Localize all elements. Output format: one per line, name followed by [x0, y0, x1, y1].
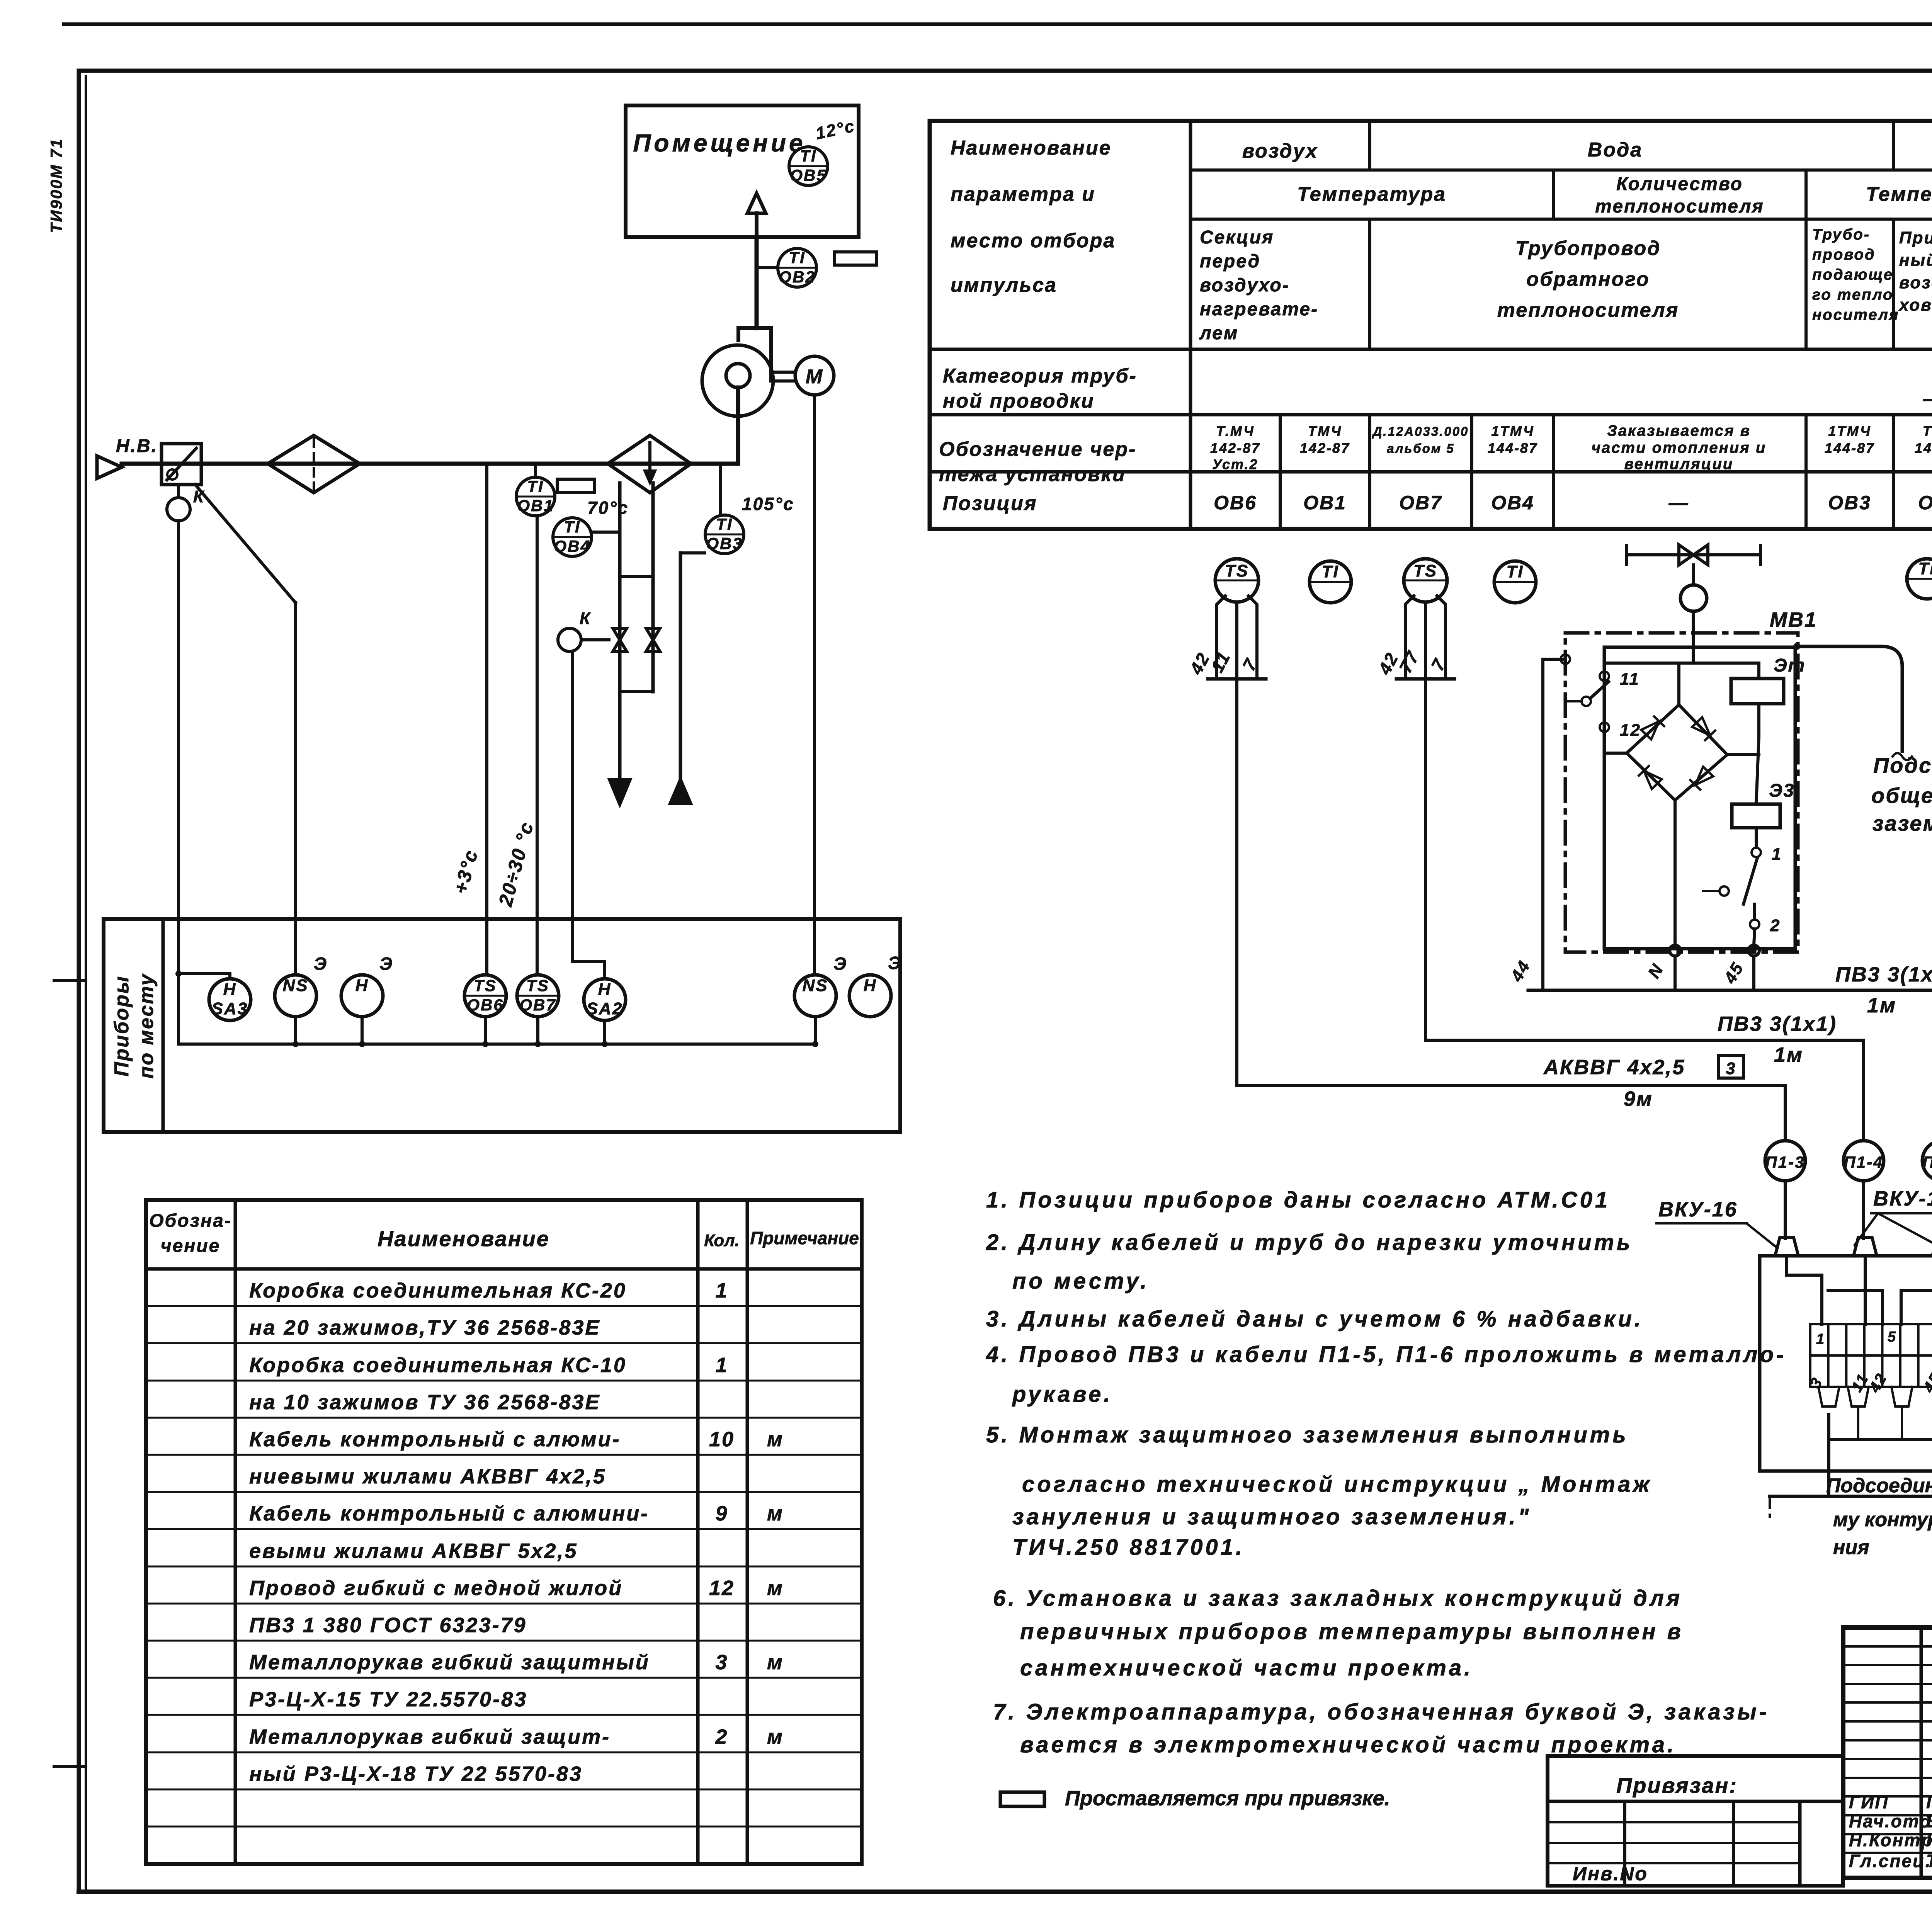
duct fan-heater: [736, 388, 740, 464]
svg-text:ный Р3-Ц-Х-18 ТУ 22 5570-83: ный Р3-Ц-Х-18 ТУ 22 5570-83: [249, 1762, 583, 1786]
sensor TS: [1215, 559, 1259, 602]
svg-text:теплоносителя: теплоносителя: [1595, 196, 1764, 217]
svg-text:SА2: SА2: [587, 999, 623, 1018]
lamp NS right: [794, 975, 836, 1017]
svg-text:ТI: ТI: [1506, 562, 1524, 581]
KC-20 internal bottom bus: [1827, 1414, 1830, 1439]
svg-text:ТИ900М 71: ТИ900М 71: [47, 138, 65, 233]
svg-text:Т.МЧ: Т.МЧ: [1216, 423, 1254, 439]
svg-text:NS: NS: [282, 976, 308, 995]
svg-text:Н.В.: Н.В.: [116, 436, 158, 456]
svg-text:Кабель контрольный с алюмини-: Кабель контрольный с алюмини-: [249, 1502, 649, 1525]
svg-text:го тепло: го тепло: [1812, 286, 1893, 303]
svg-text:1ТМЧ: 1ТМЧ: [1828, 423, 1871, 439]
svg-text:сантехнической части проекта: сантехнической части проекта.: [1020, 1655, 1473, 1680]
svg-text:Трубопровод: Трубопровод: [1515, 237, 1661, 260]
svg-text:Провод гибкий с медной жилой: Провод гибкий с медной жилой: [249, 1577, 623, 1600]
svg-text:77: 77: [1395, 647, 1423, 676]
parts table: [146, 1200, 862, 1864]
diode VD1: [1641, 716, 1664, 740]
svg-text:44: 44: [1507, 957, 1534, 985]
svg-text:ный: ный: [1899, 251, 1932, 270]
svg-text:вентиляции: вентиляции: [1624, 456, 1734, 473]
svg-text:142-87: 142-87: [1210, 440, 1260, 456]
svg-text:Э: Э: [888, 953, 902, 973]
svg-text:Гл.спец.: Гл.спец.: [1849, 1851, 1932, 1871]
svg-text:подающе: подающе: [1812, 266, 1893, 283]
valve K2 circle: [558, 628, 581, 651]
svg-text:+3°с: +3°с: [449, 847, 482, 896]
damper K1: [162, 444, 201, 485]
svg-text:Н: Н: [598, 980, 612, 999]
fan P1: [702, 345, 773, 416]
cable circle P1-3: [1765, 1141, 1805, 1181]
svg-text:ТI: ТI: [716, 515, 733, 533]
cable circle P1-4: [1844, 1141, 1884, 1181]
svg-text:ОВ2: ОВ2: [779, 268, 815, 286]
outside air funnel НВ: [97, 456, 122, 478]
lamp NS: [275, 975, 316, 1017]
thermometer TI OB3: [705, 515, 744, 554]
svg-text:Приборы: Приборы: [111, 975, 133, 1077]
svg-text:Эт: Эт: [1774, 655, 1806, 676]
pushbutton H: [341, 975, 383, 1017]
position tag rect: [834, 252, 877, 265]
svg-text:место отбора: место отбора: [951, 230, 1116, 252]
svg-text:ной проводки: ной проводки: [943, 390, 1095, 412]
sensor TS: [1404, 559, 1447, 602]
svg-text:ПВ3 3(1х1): ПВ3 3(1х1): [1718, 1012, 1837, 1036]
motor M: [795, 356, 834, 395]
valve circle K: [177, 485, 180, 498]
fold mark: [54, 979, 86, 982]
svg-text:Наименование: Наименование: [378, 1226, 550, 1251]
svg-text:12: 12: [709, 1577, 735, 1600]
svg-text:ОВ7: ОВ7: [519, 996, 556, 1014]
pushbutton H right: [849, 975, 891, 1017]
diode VD2: [1692, 717, 1715, 740]
thermostat TS OB6: [464, 975, 506, 1017]
thermometer TI OB4: [553, 518, 592, 556]
svg-text:м: м: [767, 1725, 784, 1748]
svg-text:Нач.отд.: Нач.отд.: [1849, 1811, 1932, 1831]
panel bus wire: [179, 1043, 815, 1046]
border frame: [64, 22, 1932, 26]
svg-text:Э: Э: [379, 954, 393, 974]
svg-text:2: 2: [1770, 916, 1781, 935]
svg-text:воздух: воздух: [1242, 140, 1318, 162]
svg-text:рукаве.: рукаве.: [1012, 1382, 1113, 1407]
svg-text:NS: NS: [802, 976, 828, 995]
svg-text:1. Позиции приборов даны со: 1. Позиции приборов даны согласно АТМ.С0…: [986, 1187, 1610, 1213]
svg-text:тежа установки: тежа установки: [939, 463, 1126, 486]
pushbutton H SA2: [584, 979, 626, 1020]
svg-text:альбом 5: альбом 5: [1387, 441, 1454, 456]
svg-text:ТИЧ.250 8817001.: ТИЧ.250 8817001.: [1012, 1535, 1245, 1560]
svg-text:Количество: Количество: [1616, 174, 1743, 194]
svg-text:перед: перед: [1200, 251, 1260, 272]
svg-text:⎯⎯: ⎯⎯: [1922, 385, 1932, 411]
svg-text:12: 12: [1620, 721, 1641, 740]
svg-text:42: 42: [1866, 1370, 1891, 1396]
svg-text:Вода: Вода: [1588, 139, 1643, 161]
svg-text:Корчкова: Корчкова: [1926, 1830, 1932, 1850]
svg-text:Привязан:: Привязан:: [1616, 1773, 1738, 1798]
legend placeholder rect: [1000, 1792, 1044, 1806]
svg-text:общему контуру: общему контуру: [1871, 783, 1932, 808]
wire Et to E3: [1757, 704, 1760, 736]
svg-text:вается в электротехнической ч: вается в электротехнической части проект…: [1020, 1732, 1676, 1757]
svg-text:—: —: [1668, 492, 1689, 514]
svg-text:воздухо-: воздухо-: [1200, 275, 1290, 296]
svg-text:Примечание: Примечание: [750, 1228, 859, 1248]
svg-text:142-87: 142-87: [1915, 440, 1932, 456]
svg-text:возду-: возду-: [1899, 273, 1932, 292]
svg-text:Категория труб-: Категория труб-: [943, 365, 1137, 387]
svg-text:П1-3: П1-3: [1765, 1153, 1805, 1171]
svg-text:4. Провод ПВ3 и кабели П1-5,: 4. Провод ПВ3 и кабели П1-5, П1-6 пролож…: [986, 1342, 1786, 1367]
wire damper to panel: [177, 521, 180, 974]
svg-text:Н: Н: [864, 976, 877, 995]
air heater: [608, 435, 691, 493]
thermometer TI OB5: [789, 147, 828, 185]
svg-text:ОВ3: ОВ3: [1828, 492, 1871, 514]
KC-20 bottom glands: [1818, 1387, 1839, 1406]
svg-text:ТS: ТS: [1225, 561, 1249, 580]
svg-text:теплоносителя: теплоносителя: [1497, 299, 1679, 321]
main duct: [122, 462, 738, 466]
svg-text:6. Установка и заказ заклад: 6. Установка и заказ закладных конструкц…: [993, 1586, 1682, 1611]
svg-text:105°с: 105°с: [742, 494, 794, 514]
svg-text:П1-1: П1-1: [1923, 1153, 1932, 1171]
svg-text:Борисов: Борисов: [1926, 1811, 1932, 1831]
svg-text:Позиция: Позиция: [943, 492, 1037, 515]
svg-text:Н: Н: [223, 980, 237, 999]
thermometer TI: [1907, 559, 1932, 599]
svg-text:Приточ-: Приточ-: [1899, 228, 1932, 247]
svg-text:Уст.2: Уст.2: [1212, 456, 1258, 472]
svg-text:му контуру заземле-: му контуру заземле-: [1833, 1509, 1932, 1531]
internal wires KC-20: [1785, 1256, 1788, 1275]
setpoint wire +3C: [485, 464, 488, 974]
svg-text:N: N: [1645, 960, 1668, 981]
pipe valve 1: [613, 628, 627, 651]
svg-text:Коробка соединительная КС-20: Коробка соединительная КС-20: [249, 1279, 627, 1302]
thermometer TI OB2: [778, 248, 816, 287]
svg-text:2. Длину кабелей и труб до: 2. Длину кабелей и труб до нарезки уточн…: [986, 1230, 1633, 1255]
svg-text:евыми жилами АКВВГ 5х2,5: евыми жилами АКВВГ 5х2,5: [249, 1539, 578, 1563]
svg-text:ОВ7: ОВ7: [1399, 492, 1442, 514]
svg-text:Э: Э: [833, 954, 847, 974]
svg-text:144-87: 144-87: [1488, 440, 1538, 456]
svg-text:ОВ4: ОВ4: [1491, 492, 1534, 514]
terminal N: [1673, 800, 1677, 945]
svg-text:Тарасова: Тарасова: [1926, 1851, 1932, 1871]
svg-text:АКВВГ 4х2,5: АКВВГ 4х2,5: [1543, 1056, 1685, 1079]
svg-text:Гусева: Гусева: [1926, 1792, 1932, 1812]
svg-text:Обозна-: Обозна-: [149, 1211, 232, 1231]
thermometer TI: [1494, 561, 1536, 603]
parameter table: [930, 121, 1932, 529]
wire valve to H1: [1692, 611, 1695, 663]
actuator circle: [1680, 585, 1707, 611]
svg-text:142-87: 142-87: [1300, 440, 1350, 456]
room box Помещение: [626, 105, 859, 237]
contact 2: [1750, 920, 1759, 929]
svg-text:Секция: Секция: [1200, 227, 1274, 248]
svg-text:1ТМЧ: 1ТМЧ: [1491, 423, 1534, 439]
svg-text:обратного: обратного: [1526, 268, 1650, 291]
svg-text:ОВ1: ОВ1: [1303, 492, 1347, 514]
diagonal damper wire: [195, 485, 296, 603]
svg-text:Проставляется при привязке.: Проставляется при привязке.: [1065, 1787, 1390, 1810]
ground wire from KC-20: [1827, 1414, 1830, 1496]
svg-text:1: 1: [715, 1279, 728, 1302]
svg-text:9: 9: [715, 1502, 728, 1525]
svg-text:ОВ2: ОВ2: [1918, 492, 1932, 514]
svg-text:ховод: ховод: [1898, 296, 1932, 315]
svg-text:П1-4: П1-4: [1844, 1153, 1884, 1171]
MV1 inner box: [1604, 647, 1795, 949]
svg-text:1м: 1м: [1774, 1043, 1803, 1066]
svg-text:45: 45: [1920, 1370, 1932, 1396]
svg-text:ТI: ТI: [789, 248, 805, 267]
return pipe arrow up: [670, 779, 691, 804]
svg-text:М: М: [806, 366, 823, 388]
svg-text:Подсоединить к: Подсоединить к: [1873, 753, 1932, 777]
svg-text:нагревате-: нагревате-: [1200, 299, 1318, 320]
svg-text:3. Длины кабелей даны с учето: 3. Длины кабелей даны с учетом 6 % надба…: [986, 1306, 1643, 1332]
svg-text:5: 5: [1888, 1329, 1897, 1345]
svg-text:ния: ния: [1833, 1536, 1869, 1559]
svg-text:1: 1: [715, 1354, 728, 1377]
contact 12: [1600, 723, 1609, 732]
svg-text:Коробка соединительная КС-10: Коробка соединительная КС-10: [249, 1354, 627, 1377]
svg-text:первичных приборов температу: первичных приборов температуры выполнен …: [1020, 1619, 1684, 1644]
svg-text:Заказывается в: Заказывается в: [1607, 422, 1751, 439]
svg-text:ТS: ТS: [1413, 561, 1437, 580]
svg-text:ОВ1: ОВ1: [517, 497, 554, 515]
svg-text:ГИП: ГИП: [1849, 1792, 1889, 1812]
svg-text:70°с: 70°с: [587, 498, 629, 518]
contact 1: [1755, 828, 1758, 848]
svg-text:м: м: [767, 1651, 784, 1674]
svg-text:1: 1: [1816, 1331, 1825, 1347]
thermostat TS OB7: [517, 975, 559, 1017]
svg-text:Н: Н: [355, 976, 369, 995]
contact blade: [1582, 697, 1591, 706]
wire motor to panel: [813, 395, 816, 974]
return pipe: [679, 553, 682, 779]
svg-text:Трубо-: Трубо-: [1812, 226, 1870, 243]
svg-text:11: 11: [1207, 648, 1234, 676]
svg-text:ТI: ТI: [800, 147, 816, 165]
svg-text:Р3-Ц-Х-15 ТУ 22.5570-83: Р3-Ц-Х-15 ТУ 22.5570-83: [249, 1688, 527, 1711]
svg-text:ТМЧ: ТМЧ: [1308, 423, 1342, 439]
svg-text:импульса: импульса: [951, 274, 1057, 296]
duct room-fan: [755, 213, 759, 237]
diode VD3: [1639, 766, 1662, 789]
svg-text:10: 10: [709, 1428, 735, 1451]
svg-text:Инв.No: Инв.No: [1573, 1863, 1648, 1884]
svg-text:Обозначение чер-: Обозначение чер-: [939, 438, 1136, 461]
svg-text:ПВ3 1 380 ГОСТ 6323-79: ПВ3 1 380 ГОСТ 6323-79: [249, 1614, 527, 1637]
svg-text:Кол.: Кол.: [704, 1231, 740, 1250]
svg-text:Подсоединить к обще-: Подсоединить к обще-: [1826, 1475, 1932, 1497]
svg-text:на 20 зажимов,ТУ 36 2568-83Е: на 20 зажимов,ТУ 36 2568-83Е: [249, 1316, 600, 1339]
svg-text:ТI: ТI: [1321, 562, 1339, 581]
svg-text:12°с: 12°с: [814, 116, 857, 143]
heater pipes: [618, 483, 622, 779]
svg-text:Металлорукав гибкий защит-: Металлорукав гибкий защит-: [249, 1725, 611, 1748]
svg-text:Наименование: Наименование: [951, 137, 1112, 159]
svg-text:9м: 9м: [1624, 1087, 1653, 1111]
svg-text:параметра и: параметра и: [951, 183, 1095, 206]
svg-text:Э3: Э3: [1769, 781, 1795, 801]
MV1 bottom bus: [1528, 989, 1932, 992]
svg-text:ОВ4: ОВ4: [554, 537, 590, 555]
svg-text:части отопления и: части отопления и: [1592, 439, 1767, 456]
title block: [1843, 1628, 1932, 1878]
MV1 ground wire: [1793, 643, 1800, 650]
KC-20 terminal strip: [1810, 1324, 1828, 1355]
contact 11: [1603, 663, 1606, 672]
svg-text:Н.Контр.: Н.Контр.: [1849, 1830, 1932, 1850]
svg-text:по месту.: по месту.: [1012, 1269, 1149, 1294]
svg-text:SА3: SА3: [212, 999, 248, 1018]
svg-text:ВКУ-16: ВКУ-16: [1658, 1198, 1738, 1221]
setpoint wire 20-30C: [536, 518, 539, 974]
svg-text:лем: лем: [1199, 323, 1238, 344]
shutoff valve line: [1627, 553, 1760, 556]
svg-text:ОВ5: ОВ5: [790, 166, 827, 184]
svg-text:провод: провод: [1812, 246, 1876, 263]
svg-text:Температура: Температура: [1297, 183, 1446, 206]
stub TI OB3 to duct: [719, 464, 722, 515]
supply outlet triangle: [747, 193, 766, 213]
pushbutton H SA3: [209, 979, 251, 1020]
svg-text:ВКУ-12: ВКУ-12: [1873, 1187, 1932, 1210]
svg-text:ПВ3 3(1х1): ПВ3 3(1х1): [1835, 963, 1932, 986]
svg-text:2: 2: [715, 1725, 728, 1748]
svg-text:Металлорукав гибкий защитный: Металлорукав гибкий защитный: [249, 1651, 650, 1674]
svg-text:144-87: 144-87: [1825, 440, 1875, 456]
svg-text:ТI: ТI: [527, 477, 544, 495]
cable circle P1-1: [1922, 1141, 1932, 1181]
thermometer TI OB1: [516, 477, 555, 516]
svg-text:зануления и защитного зазем: зануления и защитного заземления.": [1012, 1504, 1531, 1529]
svg-text:ТI: ТI: [564, 518, 580, 536]
svg-text:носителя: носителя: [1812, 306, 1899, 323]
svg-text:ОВ6: ОВ6: [467, 996, 503, 1014]
svg-text:м: м: [767, 1577, 784, 1600]
svg-text:ниевыми жилами АКВВГ 4х2,5: ниевыми жилами АКВВГ 4х2,5: [249, 1465, 606, 1488]
svg-text:согласно технической инструк: согласно технической инструкции „ Монтаж: [1022, 1472, 1652, 1497]
svg-text:по месту: по месту: [135, 973, 158, 1079]
diode VD4: [1690, 767, 1713, 790]
wire 44: [1543, 658, 1565, 661]
svg-text:20÷30 °с: 20÷30 °с: [494, 819, 537, 909]
svg-text:м: м: [767, 1502, 784, 1525]
svg-text:3: 3: [715, 1651, 728, 1674]
junction box KC-20 N10: [1760, 1256, 1932, 1471]
svg-text:1м: 1м: [1867, 994, 1896, 1017]
svg-text:ТI: ТI: [1918, 559, 1932, 578]
svg-text:ТS: ТS: [526, 976, 549, 995]
svg-text:ТS: ТS: [474, 976, 497, 995]
thermometer TI: [1310, 561, 1351, 603]
svg-text:11: 11: [1620, 670, 1640, 689]
svg-text:К: К: [580, 609, 591, 628]
svg-text:Д.12А033.000: Д.12А033.000: [1372, 424, 1469, 439]
binding box Привязан: [1548, 1756, 1843, 1886]
svg-text:заземления: заземления: [1872, 811, 1932, 835]
valve bowtie: [1679, 545, 1708, 565]
wire H1: [1604, 662, 1759, 665]
local instruments box Приборы по месту: [104, 919, 900, 1132]
wire TS2 to P1-4: [1424, 679, 1427, 1040]
svg-text:Помещение: Помещение: [633, 129, 806, 157]
svg-text:5. Монтаж защитного заземления: 5. Монтаж защитного заземления выполнить: [986, 1422, 1629, 1447]
svg-text:1: 1: [1772, 845, 1782, 864]
supply pipe arrow down: [609, 779, 630, 804]
wire K2 to panel: [571, 651, 574, 961]
svg-text:м: м: [767, 1428, 784, 1451]
switch blade: [1719, 886, 1729, 896]
filter: [268, 435, 360, 493]
svg-text:Температура: Температура: [1866, 183, 1932, 206]
svg-text:ТМЧ: ТМЧ: [1923, 423, 1932, 439]
svg-text:МВ1: МВ1: [1770, 608, 1817, 631]
svg-text:ОВ6: ОВ6: [1214, 492, 1257, 514]
svg-text:Кабель контрольный с алюми-: Кабель контрольный с алюми-: [249, 1428, 621, 1451]
fold mark: [54, 1765, 86, 1768]
pipe valve 2: [646, 628, 660, 651]
svg-text:на 10 зажимов ТУ 36 2568-83Е: на 10 зажимов ТУ 36 2568-83Е: [249, 1391, 600, 1414]
svg-text:ОВ3: ОВ3: [706, 534, 743, 553]
bridge rectifier: [1627, 705, 1727, 800]
svg-text:чение: чение: [161, 1236, 221, 1256]
wire TS1 to P1-3: [1235, 679, 1238, 1085]
terminal 45: [1754, 929, 1755, 945]
svg-text:45: 45: [1720, 959, 1747, 987]
svg-text:3: 3: [1726, 1059, 1736, 1078]
MV1 dash-dot enclosure: [1565, 633, 1798, 952]
svg-text:7. Электроаппаратура, обозначе: 7. Электроаппаратура, обозначенная букво…: [993, 1699, 1769, 1725]
svg-text:Э: Э: [314, 954, 328, 974]
